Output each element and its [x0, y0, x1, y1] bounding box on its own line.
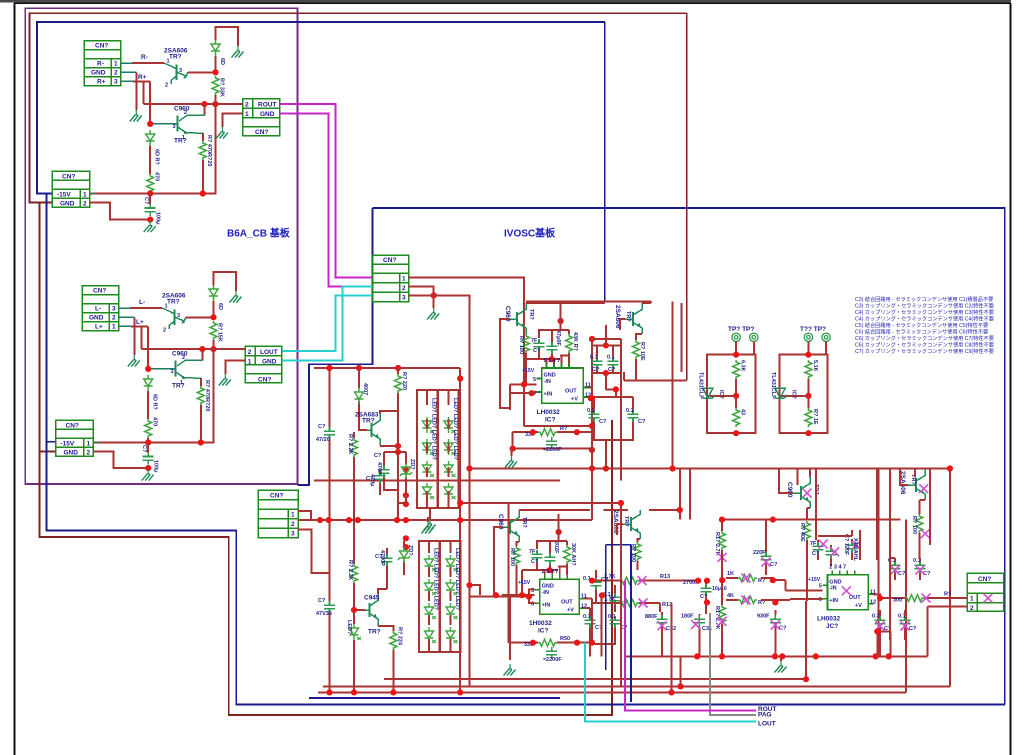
wire vertical left bias B [459, 368, 461, 692]
wire vertical x806 down [805, 601, 807, 679]
resistor R 43K [566, 334, 573, 353]
svg-text:2: 2 [83, 201, 87, 208]
wire vertical x601 [601, 594, 603, 656]
node on LOUT wire [210, 346, 216, 352]
wire -15V rail stub [93, 442, 100, 444]
svg-text:R? 100: R? 100 [911, 516, 917, 534]
caps 0.1 A [591, 578, 602, 590]
capacitor C close1 [534, 339, 545, 351]
wire GND pin to ground [119, 316, 135, 318]
LED chain 4 [446, 555, 458, 571]
svg-text:+IN: +IN [829, 598, 838, 604]
wire GND pin2 to cap [93, 452, 148, 469]
svg-text:R+: R+ [138, 74, 147, 81]
svg-text:GND: GND [64, 450, 79, 457]
svg-text:R? 2.2K: R? 2.2K [347, 434, 353, 455]
wire R470 to rail [149, 192, 151, 195]
connector CN4 output [967, 573, 1003, 611]
wire -15V rail stub [90, 193, 97, 195]
capacitor C 202F [532, 550, 543, 562]
resistor R 100 X [916, 514, 923, 533]
svg-text:6D R?: 6D R? [152, 394, 158, 411]
svg-text:470: 470 [152, 417, 158, 426]
resistor R13 2.7K with X [592, 580, 697, 582]
svg-text:-15V: -15V [61, 441, 75, 448]
wire inputs [470, 585, 535, 603]
svg-text:C?: C? [779, 626, 787, 632]
ground amp L [504, 664, 516, 676]
svg-text:1: 1 [970, 596, 974, 603]
svg-text:C6( カップリング・セラミックコンデンサ使用 C7(特性不: C6( カップリング・セラミックコンデンサ使用 C7(特性不要 [855, 334, 994, 342]
resistor R 2.7K right low X [719, 605, 726, 624]
resistor R 43 [733, 408, 740, 427]
wire TR4 collector [201, 349, 203, 360]
wire rail bottom 3 [318, 691, 906, 693]
junction dots row1/row2 [695, 578, 701, 584]
wire D1 to junction [215, 56, 217, 72]
wire ROUT-GND magenta [280, 113, 373, 286]
svg-text:C?: C? [374, 453, 382, 459]
svg-text:+15V: +15V [808, 577, 821, 583]
diode D 4007 [355, 388, 364, 404]
wire base in [500, 319, 510, 408]
svg-text:2: 2 [112, 315, 116, 322]
wire TR12 feeds [900, 469, 925, 515]
node on ROUT wire [212, 101, 218, 107]
transistor TR7 C960 [509, 303, 526, 334]
wire LOUT cyan [282, 296, 373, 352]
wire R15K to LOUT rail [93, 340, 214, 443]
wire pin2 to ground [409, 287, 434, 308]
svg-text:TL431CLP: TL431CLP [770, 372, 776, 399]
svg-text:R? 224: R? 224 [397, 627, 403, 646]
node bottom rail dots [326, 689, 332, 695]
svg-text:LED? LED? LED? LED?: LED? LED? LED? LED? [433, 548, 439, 611]
svg-text:R? 470R?20: R? 470R?20 [204, 380, 210, 412]
resistor R 2.2K lower [353, 520, 355, 564]
svg-text:+15V: +15V [518, 580, 531, 586]
svg-text:R+: R+ [97, 79, 106, 86]
svg-text:TR?: TR? [167, 299, 180, 306]
svg-text:C?: C? [638, 419, 646, 425]
wire vertical x681 [680, 303, 682, 372]
capacitor C 47/20 [324, 427, 335, 439]
svg-text:C960: C960 [786, 482, 793, 498]
svg-text:+IN: +IN [544, 392, 553, 398]
svg-text:LOUT: LOUT [758, 721, 776, 728]
svg-text:OUT: OUT [565, 389, 577, 395]
feedback resistor R50 330 [510, 597, 592, 660]
diode D1 [211, 40, 220, 56]
node cap bottom [147, 217, 153, 223]
wire rail lower mid [626, 655, 927, 657]
svg-text:C3( 結合回路用 - セラミックコンデンサ使用 C1(積層: C3( 結合回路用 - セラミックコンデンサ使用 C1(積層品不要 [855, 295, 993, 303]
svg-text:R-: R- [141, 54, 148, 61]
svg-text:2: 2 [182, 355, 185, 361]
svg-text:C?: C? [375, 554, 383, 560]
svg-text:220P: 220P [753, 550, 766, 556]
svg-text:7F: 7F [531, 338, 538, 344]
wire D3 to junction [213, 301, 215, 317]
diode D4 [144, 375, 153, 391]
wire vertical x592 [591, 339, 593, 520]
wire rail bottom 2 [323, 685, 950, 687]
svg-text:CN?: CN? [270, 493, 283, 500]
wire CN7 pin1 [298, 511, 311, 520]
svg-text:TP? TP?: TP? TP? [728, 326, 754, 333]
svg-text:R? 1E: R? 1E [812, 409, 818, 425]
connector CN-LOUT [245, 346, 281, 383]
svg-text:ROUT: ROUT [258, 102, 276, 109]
top window bar [0, 0, 1011, 2]
svg-text:GND: GND [91, 70, 106, 77]
capacitor C 220P X [761, 552, 772, 564]
wire pin1 east [409, 278, 593, 426]
TL431 U1 [703, 388, 715, 398]
caps 0.1 pair low [589, 410, 600, 422]
test point TP4 [822, 333, 830, 341]
svg-text:≈2200F: ≈2200F [543, 657, 562, 663]
svg-text:0.3: 0.3 [872, 614, 880, 620]
svg-text:LH0032: LH0032 [817, 616, 841, 623]
svg-text:IC?: IC? [790, 390, 796, 400]
svg-text:C?: C? [770, 562, 778, 568]
svg-text:C5) 結合回路用 - セラミックコンデンサ使用 C6(特性: C5) 結合回路用 - セラミックコンデンサ使用 C6(特性不要 [855, 328, 988, 336]
transistor TR9 C960 [502, 510, 519, 542]
svg-text:OUT: OUT [561, 600, 573, 606]
resistor R 470 (2) [197, 386, 204, 405]
wire rail top bias [314, 367, 460, 369]
svg-text:1: 1 [165, 304, 168, 310]
wire R33K to ROUT rail [90, 95, 216, 194]
wire D1 top to ground [216, 27, 239, 46]
resistor R 224 [378, 626, 393, 631]
resistor R 470 [147, 174, 154, 193]
wire TR6 collector up [378, 589, 387, 594]
wire cap top to rail [149, 194, 151, 204]
svg-text:1: 1 [114, 61, 118, 68]
svg-text:930F: 930F [757, 614, 770, 620]
svg-text:5.1K: 5.1K [812, 360, 818, 372]
resistor R 15K [210, 321, 217, 340]
svg-text:1: 1 [291, 512, 295, 519]
wire IC2 pin stubs [545, 566, 560, 574]
svg-text:30K AH?: 30K AH? [570, 543, 576, 566]
svg-text:R? 33K: R? 33K [219, 78, 225, 97]
connector CN7 bias input [258, 490, 298, 538]
svg-text:B6A_CB 基板: B6A_CB 基板 [227, 227, 291, 240]
wire TR5 collector to R220 [380, 411, 398, 414]
svg-text:+V: +V [571, 397, 578, 403]
connector CN1 (R-, GND, R+) [84, 41, 121, 86]
svg-text:R13: R13 [660, 574, 670, 580]
svg-text:+15V: +15V [522, 368, 535, 374]
resistor R 5.1K [805, 360, 812, 379]
svg-text:CN?: CN? [258, 376, 271, 383]
wire L- to TR3 [119, 307, 131, 309]
wire diode feed [359, 368, 367, 430]
wire verticals out [860, 530, 950, 640]
svg-text:4K: 4K [727, 593, 734, 599]
svg-text:LED? LED? LED? LED?: LED? LED? LED? LED? [454, 548, 460, 611]
svg-text:CN?: CN? [383, 257, 396, 264]
svg-text:-IN: -IN [544, 379, 551, 385]
node junction TR3/D3/R15K [210, 314, 216, 320]
svg-text:TR?: TR? [169, 54, 182, 61]
node rail R470 [145, 439, 151, 445]
caps 0.1 pair IC3 bottom [875, 616, 886, 628]
svg-text:1: 1 [112, 324, 116, 331]
svg-text:C?: C? [366, 476, 374, 482]
LED chain 3 [425, 555, 437, 571]
svg-text:CN?: CN? [93, 288, 106, 295]
ground [128, 355, 140, 367]
caps 0.1 pair IC3 top [890, 561, 901, 573]
svg-text:IVOSC基板: IVOSC基板 [504, 227, 556, 240]
wire R10E to gnd join [620, 319, 687, 380]
node rail [198, 439, 204, 445]
wire ROUT magenta [280, 104, 373, 278]
cap C 4700P [386, 548, 388, 554]
ground LOUT gnd [219, 374, 231, 386]
svg-text:TR?: TR? [623, 516, 629, 527]
svg-text:JC?: JC? [826, 623, 838, 630]
svg-text:CN?: CN? [66, 423, 79, 430]
svg-text:C?: C? [318, 424, 326, 430]
svg-text:C7( カップリング・セラミックコンデンサ使用 C9(特性不: C7( カップリング・セラミックコンデンサ使用 C9(特性不要 [855, 347, 994, 355]
-15V net navy routing [37, 22, 605, 194]
ground [232, 46, 244, 58]
connector CN3 IVOSC input [373, 255, 409, 302]
svg-text:TR?: TR? [368, 629, 381, 636]
wire caps bottom join [877, 631, 890, 656]
ground [130, 110, 142, 122]
svg-text:7F: 7F [529, 549, 536, 555]
svg-text:R? 10E: R? 10E [639, 342, 645, 361]
svg-text:R? 100: R? 100 [509, 548, 515, 566]
svg-text:3: 3 [402, 295, 406, 302]
wire vertical x906 [905, 520, 907, 693]
wire R470 to rail [147, 438, 149, 443]
wire R to rail [202, 160, 204, 194]
svg-text:880F: 880F [645, 614, 658, 620]
node TR2 collector tap [201, 101, 207, 107]
svg-text:0.1: 0.1 [608, 614, 616, 620]
svg-text:1: 1 [245, 111, 249, 118]
grounds/dots output [775, 661, 787, 673]
wire top feed [526, 302, 605, 304]
wire to TR6 base [354, 583, 365, 610]
svg-text:43: 43 [740, 409, 746, 415]
svg-text:L-: L- [139, 299, 145, 306]
node junction TR1/D1/R33K [212, 69, 218, 75]
caps 0.1 pair low2 [585, 616, 596, 628]
capacitor C 100u [143, 452, 154, 464]
connector CN6 -15V GND [56, 420, 94, 456]
svg-text:C?: C? [599, 419, 607, 425]
svg-text:1: 1 [402, 276, 406, 283]
diode D3 [209, 285, 218, 301]
svg-text:2: 2 [248, 349, 252, 356]
resistor R 470 [145, 419, 152, 438]
wire R+ [121, 80, 134, 82]
ground cap [142, 469, 154, 481]
LED array box R [417, 390, 438, 508]
wire lower amp enclosure top [460, 502, 621, 504]
wire cap top to rail [147, 443, 149, 453]
svg-text:CN?: CN? [255, 129, 268, 136]
wire ROUT horizontal [143, 103, 242, 105]
wire stubs to LOUT pins [225, 349, 245, 374]
svg-text:R?: R? [560, 426, 568, 432]
svg-text:1: 1 [182, 135, 185, 141]
transistor TR3 2SA606 [169, 310, 186, 330]
resistor R 2.2K upper [329, 367, 331, 369]
wire row1 extension [761, 578, 822, 590]
svg-text:C3) カップリング・セラミックコンデンサ使用 C2(特性不: C3) カップリング・セラミックコンデンサ使用 C2(特性不要 [855, 302, 994, 310]
wire cyan LOUT bottom [585, 643, 756, 722]
B6A block purple outline [25, 8, 297, 484]
svg-text:1H0032: 1H0032 [529, 620, 552, 627]
svg-text:3: 3 [171, 369, 174, 375]
resistor R 2.7K right with X [721, 520, 723, 531]
svg-text:300: 300 [893, 598, 902, 604]
svg-text:-15V: -15V [57, 192, 71, 199]
svg-text:C?: C? [143, 197, 149, 205]
ground cap [144, 221, 156, 233]
wire rail mid bias [318, 519, 592, 521]
left page border [14, 3, 16, 755]
svg-text:6D R?: 6D R? [154, 149, 160, 166]
ground bias R [429, 508, 431, 519]
svg-text:GND: GND [544, 373, 556, 379]
svg-text:180F: 180F [681, 614, 694, 620]
svg-text:TR?: TR? [362, 418, 375, 425]
wire R- to TR1 [121, 62, 133, 64]
svg-text:4007: 4007 [362, 383, 368, 395]
svg-text:T?? TP?: T?? TP? [800, 326, 826, 333]
svg-text:GND: GND [542, 584, 554, 590]
svg-text:2: 2 [291, 521, 295, 528]
svg-text:LED? LED? LED? LED?: LED? LED? LED? LED? [452, 398, 458, 461]
wire stubs to ROUT pins [223, 104, 243, 127]
zener ZD2 [403, 541, 405, 575]
resistor RX left b [726, 599, 738, 601]
svg-text:2: 2 [163, 328, 166, 334]
svg-text:R-: R- [97, 61, 104, 68]
svg-text:GND: GND [829, 579, 841, 585]
node TR5 emitter [395, 443, 401, 449]
svg-text:2: 2 [114, 70, 118, 77]
svg-text:2: 2 [245, 102, 249, 109]
svg-text:R? 15K: R? 15K [217, 323, 223, 342]
svg-text:OUT: OUT [849, 595, 861, 601]
vertical x592 dots [589, 336, 595, 342]
svg-text:6D: 6D [219, 58, 225, 65]
wire vertical x672 [672, 301, 674, 468]
capacitor C 930F [770, 615, 781, 627]
svg-text:12: 12 [870, 599, 876, 605]
svg-text:2: 2 [87, 450, 91, 457]
node pin3 crossing [431, 292, 437, 298]
svg-text:LED?: LED? [346, 620, 352, 635]
wire D3 top to ground [214, 272, 237, 291]
svg-text:R? 220: R? 220 [401, 372, 407, 390]
wire rail B supply [314, 480, 560, 482]
svg-text:ZD?: ZD? [409, 459, 415, 470]
transistor TR12 2SA606 X [908, 469, 925, 500]
diode D2 [146, 130, 155, 146]
LED chain 1 [423, 417, 435, 433]
wire R220 down [380, 393, 398, 446]
svg-text:100μ: 100μ [155, 212, 161, 225]
svg-text:R50: R50 [560, 636, 570, 642]
svg-text:43K R?: 43K R? [572, 332, 578, 352]
svg-text:C5( 結合回路用 - セラミックコンデンサ使用 C5(特性: C5( 結合回路用 - セラミックコンデンサ使用 C5(特性不要 [855, 321, 988, 329]
wire grey TP net [710, 613, 756, 715]
node rail A dots [466, 465, 472, 471]
capacitor C 470P [379, 466, 390, 478]
svg-text:CN?: CN? [978, 576, 991, 583]
svg-text:3: 3 [179, 68, 182, 74]
resistor R 100 [516, 542, 519, 546]
node TR4 base junction [145, 366, 151, 372]
svg-text:CN?: CN? [95, 43, 108, 50]
wire cap/zener row [384, 446, 398, 520]
svg-text:GND: GND [60, 201, 75, 208]
transistor TR5 2SA683 [367, 414, 380, 446]
ref box 1 [736, 342, 755, 355]
wire LED cols [427, 390, 449, 508]
wire magenta ROUT bottom [625, 581, 756, 711]
svg-text:ZD?: ZD? [407, 545, 413, 556]
wire D2 to R470 [149, 146, 151, 174]
svg-text:5: 5 [533, 377, 536, 383]
svg-text:2: 2 [402, 285, 406, 292]
svg-text:TL431CLP: TL431CLP [698, 372, 704, 399]
resistor R14 1.7K with X [592, 603, 660, 612]
wire LED cols low [429, 541, 451, 652]
capacitor C 2700F [701, 584, 712, 596]
capacitor C close2 [547, 342, 558, 354]
svg-text:1: 1 [248, 358, 252, 365]
svg-text:LH0032: LH0032 [537, 409, 561, 416]
test point TP3 [804, 333, 812, 341]
wire LOUT horizontal [141, 348, 245, 350]
svg-text:GND: GND [260, 111, 275, 118]
svg-text:6.3K: 6.3K [740, 360, 746, 372]
wire CN4 pin2 to rail [927, 606, 967, 656]
feedback resistor R 330 [513, 426, 592, 449]
connector CN5 (L-, GND, L+) [82, 286, 119, 331]
svg-text:+V: +V [855, 603, 862, 609]
ground amp U [511, 449, 513, 456]
svg-text:47V35: 47V35 [316, 611, 332, 617]
wire vertical left bias A [329, 368, 331, 692]
svg-text:C4( カップリング・セラミックコンデンサ使用 C3(特性不: C4( カップリング・セラミックコンデンサ使用 C3(特性不要 [855, 308, 994, 316]
svg-text:5: 5 [819, 584, 822, 590]
svg-text:C?: C? [909, 626, 917, 632]
svg-text:3: 3 [173, 124, 176, 130]
resistor R 33K [212, 76, 219, 95]
svg-text:PAG: PAG [758, 712, 772, 719]
capacitor C 470u [375, 472, 386, 484]
IC out wires [589, 388, 616, 398]
capacitor C32 880F X [657, 615, 668, 627]
wire vertical x949 [949, 469, 951, 687]
svg-text:L-: L- [95, 306, 101, 313]
connector CN2 -15V GND [52, 171, 90, 207]
